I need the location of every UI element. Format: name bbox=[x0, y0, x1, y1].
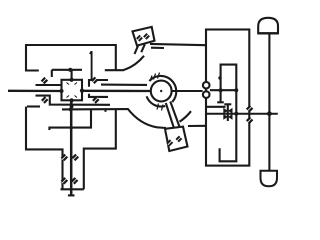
gear circle lower on box edge bbox=[203, 91, 210, 98]
block bottom bearing diamonds bbox=[166, 139, 173, 146]
worm shaft lower lines bbox=[166, 103, 174, 128]
differential cage square bbox=[62, 80, 83, 101]
wire from top block to gearbox bbox=[150, 44, 206, 45]
node on support line bbox=[68, 68, 72, 72]
node on lower line bbox=[69, 107, 73, 111]
housing top-left frame bbox=[26, 45, 116, 71]
wire block to gearbox bbox=[188, 125, 206, 127]
wire shaft inside box bbox=[210, 89, 236, 91]
bearing diamond lower-left bbox=[41, 96, 48, 103]
vertical output shaft bottom bbox=[70, 101, 73, 196]
bearing diamond on box edge lower bbox=[246, 117, 253, 124]
bevel gear bowtie below shaft bbox=[223, 114, 228, 120]
node tick on left leg bbox=[218, 76, 221, 79]
hook curve right of lower block bbox=[180, 111, 192, 122]
bearing diamond lower-right bbox=[92, 96, 99, 103]
bevel stub cap bbox=[224, 103, 231, 105]
bearing diamond pair lower on vertical shaft bbox=[61, 177, 68, 184]
bell top bbox=[258, 18, 278, 33]
node on support line bbox=[70, 126, 73, 129]
bevel gear node top bbox=[70, 78, 74, 82]
bearing diamond pair upper on vertical shaft bbox=[61, 154, 68, 161]
bevel gear vertical stub bbox=[227, 104, 229, 121]
housing lower-left frame bbox=[26, 107, 63, 190]
bevel gear node bottom bbox=[70, 98, 74, 102]
worm hatch ticks top bbox=[150, 73, 160, 82]
bevel gear node right bbox=[80, 89, 84, 93]
bevel gear node left bbox=[59, 89, 63, 93]
worm hatch ticks bottom bbox=[157, 104, 163, 111]
stub tick bbox=[104, 109, 106, 112]
wire cage top support line bbox=[52, 69, 82, 71]
bearing diamond upper-right bbox=[91, 77, 98, 84]
bracket lower right of cage bbox=[89, 94, 108, 97]
sleeve lower line bbox=[36, 96, 111, 105]
bearing block top (tilted) bbox=[133, 27, 155, 46]
bearing diamond on box edge upper bbox=[246, 105, 253, 112]
housing ledge under riser bbox=[105, 69, 124, 71]
short stub under it bbox=[151, 47, 164, 49]
wire worm wheel output shaft bbox=[172, 90, 202, 92]
housing lower-right frame bbox=[84, 109, 116, 189]
node shaft at left leg bbox=[219, 88, 223, 92]
bracket upper right of cage bbox=[89, 80, 108, 87]
block top bearing diamonds bbox=[136, 35, 143, 42]
node at inner frame bbox=[234, 112, 238, 116]
node at bell shaft bbox=[267, 111, 272, 116]
inner frame foot bbox=[217, 101, 224, 103]
housing lower-left lip bbox=[27, 105, 40, 107]
wire lower shaft line under cage bbox=[62, 108, 128, 110]
worm wheel bbox=[151, 81, 172, 102]
wire main input shaft left bbox=[8, 90, 62, 92]
stub shaft top of cage bbox=[71, 70, 73, 80]
bell bottom bbox=[261, 171, 278, 187]
wire inner support line bbox=[49, 109, 91, 130]
channel bottom caps bbox=[61, 188, 84, 190]
gear mesh ticks inside cage bbox=[67, 83, 78, 98]
stub shaft bottom of cage bbox=[71, 100, 73, 110]
wire upper intermediate line bbox=[206, 106, 226, 108]
bevel gear bowtie above shaft bbox=[223, 108, 228, 114]
wire lower cross shaft bbox=[207, 113, 278, 115]
housing curve up to worm bearing bbox=[124, 56, 145, 70]
wire main shaft to worm wheel bbox=[82, 90, 151, 92]
worm wheel center dot bbox=[160, 90, 162, 92]
node shaft end bbox=[234, 88, 238, 92]
bell shaft vertical bbox=[268, 34, 270, 171]
tangent housing line to wheel bbox=[101, 84, 147, 86]
worm thread arc top bbox=[149, 76, 176, 102]
node bottom stub bbox=[70, 105, 74, 109]
gearbox housing right bbox=[206, 30, 249, 166]
housing curve under wheel bbox=[128, 109, 167, 129]
worm shaft upper lines bbox=[135, 46, 139, 54]
gear circle upper on box edge bbox=[203, 82, 210, 89]
bearing diamond upper-left bbox=[41, 77, 48, 84]
shaft foot bbox=[68, 194, 75, 196]
housing step left bbox=[51, 70, 53, 77]
bell top base line bbox=[258, 32, 279, 34]
shaft label 1 bbox=[90, 51, 92, 80]
sleeve upper line bbox=[36, 84, 62, 86]
inner frame inverted U bbox=[220, 65, 237, 162]
bearing block bottom (tilted) bbox=[165, 127, 188, 151]
worm thread arc bottom bbox=[147, 96, 166, 106]
